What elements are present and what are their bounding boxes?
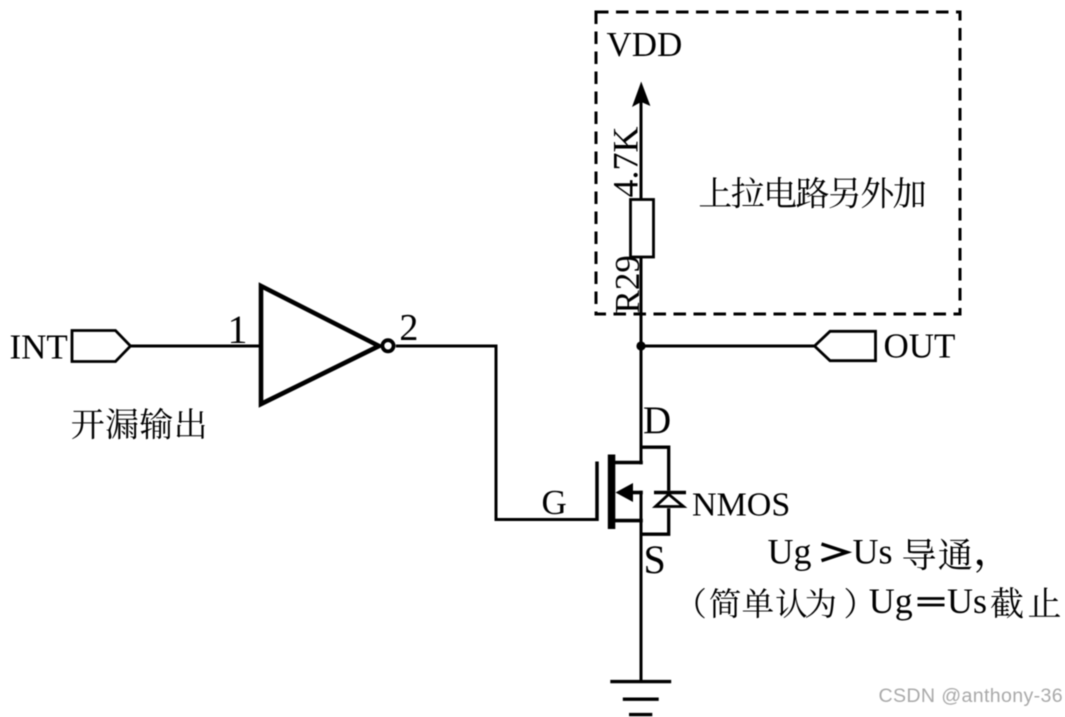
inverter output bubble	[382, 340, 393, 351]
wire INT to inverter input	[131, 345, 264, 348]
dashed pull-up region box	[596, 12, 960, 314]
transistor Q1 channel bar	[608, 455, 616, 530]
svg-text:Us: Us	[853, 532, 893, 572]
svg-text:OUT: OUT	[884, 327, 956, 366]
node junction dot	[636, 341, 645, 350]
annotation 截止 (line2)	[991, 587, 1060, 618]
svg-text:Us: Us	[947, 581, 987, 621]
ground symbol	[610, 680, 671, 683]
annotation greater-than (line1)	[822, 544, 847, 561]
svg-text:INT: INT	[10, 328, 68, 367]
wire resistor bottom to node	[640, 257, 643, 348]
svg-text:1: 1	[228, 307, 248, 352]
source wire segment	[640, 491, 643, 683]
svg-text:4.7K: 4.7K	[606, 127, 646, 198]
body arrow stub	[628, 491, 643, 495]
inverter U1 triangle	[261, 286, 379, 404]
source stub	[611, 519, 643, 523]
annotation 导通 (line1)	[903, 539, 971, 571]
annotation 开漏输出	[72, 408, 205, 440]
resistor R29 4.7K	[631, 200, 654, 258]
svg-text:NMOS: NMOS	[692, 487, 790, 524]
body diode cathode bar	[654, 491, 686, 495]
svg-text:Ug: Ug	[869, 581, 913, 621]
wire node to OUT connector	[641, 345, 816, 348]
transistor Q1 gate plate	[595, 462, 599, 522]
svg-text:G: G	[542, 483, 567, 522]
annotation （简单认为） (line2)	[696, 588, 855, 619]
drain wire segment	[640, 346, 643, 464]
wire inverter output to gate	[396, 346, 597, 520]
INT port connector	[72, 331, 131, 362]
svg-text:S: S	[644, 537, 666, 582]
annotation equals (line2)	[918, 597, 945, 600]
body diode triangle	[656, 494, 684, 506]
svg-text:VDD: VDD	[607, 25, 683, 64]
svg-text:CSDN @anthony-36: CSDN @anthony-36	[879, 685, 1064, 707]
svg-text:2: 2	[399, 307, 418, 349]
drain stub	[611, 461, 643, 465]
annotation fullwidth comma (line1)	[976, 560, 982, 573]
svg-text:Ug: Ug	[768, 532, 812, 572]
VDD power arrow	[632, 82, 650, 108]
OUT port connector	[815, 331, 876, 360]
annotation 上拉电路另外加	[700, 177, 925, 208]
svg-text:D: D	[643, 399, 671, 442]
body diode branch	[641, 447, 669, 534]
